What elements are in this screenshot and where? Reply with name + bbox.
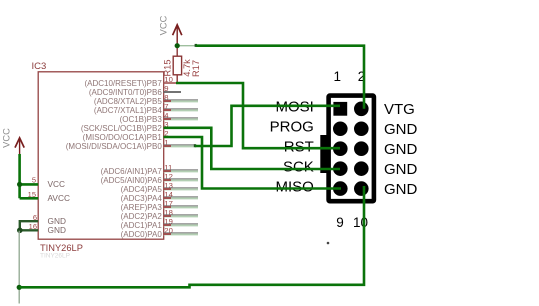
svg-text:GND: GND: [384, 121, 418, 138]
unconnected pin stub PB5: [164, 100, 199, 102]
header pin 7 (SCK): [333, 161, 348, 176]
svg-text:IC3: IC3: [32, 61, 47, 72]
IC3 left pin numbers: [28, 176, 37, 231]
header pin 6 (GND): [354, 141, 369, 156]
svg-text:GND: GND: [384, 161, 418, 178]
wire MOSI net: PB0 to header pin 1: [195, 106, 340, 146]
svg-text:(ADC9/INT0/T0)PB6: (ADC9/INT0/T0)PB6: [89, 88, 162, 97]
svg-text:AVCC: AVCC: [48, 193, 70, 203]
svg-text:(ADC2)PA2: (ADC2)PA2: [121, 212, 163, 221]
svg-text:VTG: VTG: [384, 101, 415, 118]
wire MISO net: PB1 to header pin 9: [164, 137, 342, 189]
wire VCC net tick: [195, 44, 197, 47]
svg-text:(SCK/SCL/OC1B\)PB2: (SCK/SCL/OC1B\)PB2: [81, 124, 162, 133]
svg-text:(ADC5/AIN0)PA6: (ADC5/AIN0)PA6: [101, 176, 163, 185]
wire GND bottom rail: [19, 186, 364, 287]
unconnected pin stub PA0: [164, 233, 199, 235]
svg-text:VCC: VCC: [159, 15, 169, 35]
IC3 right pin numbers: [164, 75, 173, 235]
VCC power symbol above resistor: [173, 25, 182, 46]
IC3 right-side pin name labels: [66, 79, 163, 239]
svg-text:R15: R15: [163, 59, 173, 76]
IC3 body: [38, 72, 164, 239]
unconnected pin stub PA6: [164, 179, 199, 181]
svg-text:(ADC0)PA0: (ADC0)PA0: [121, 230, 163, 239]
header pin 5 (RST): [333, 141, 348, 156]
wire VCC net: pale lead from vcc arrow junction: [177, 45, 196, 47]
junction at pin 16: [17, 228, 23, 234]
unconnected pin stub PA4: [164, 197, 199, 199]
svg-text:(MISO/DO/OC1A)PB1: (MISO/DO/OC1A)PB1: [83, 133, 163, 142]
svg-text:(ADC7/XTAL1)PB4: (ADC7/XTAL1)PB4: [94, 106, 162, 115]
pin stub PB0 pale part: [164, 145, 196, 147]
stray dot artifact: [327, 242, 330, 245]
svg-text:GND: GND: [384, 141, 418, 158]
svg-text:VCC: VCC: [1, 128, 11, 148]
header pin 10 (GND): [354, 181, 369, 196]
header pin 3 (PROG): [333, 121, 348, 136]
svg-text:VCC: VCC: [48, 179, 66, 189]
junction at pin 5: [17, 182, 22, 187]
unconnected pin stub PB4: [164, 109, 199, 111]
svg-text:(ADC3)PA4: (ADC3)PA4: [121, 194, 163, 203]
svg-text:R17: R17: [191, 60, 201, 77]
header pin 8 (GND): [354, 161, 369, 176]
ISP header connector body: [329, 96, 374, 202]
pin stub PB7 (red, to resistor): [164, 82, 177, 84]
header column numbers 9 10: [336, 215, 368, 230]
svg-text:(AREF)PA3: (AREF)PA3: [121, 203, 163, 212]
resistor R15 4.7k: [173, 46, 181, 84]
IC3 left-side pin name labels: [48, 179, 70, 235]
header column numbers 1 2: [334, 69, 366, 84]
junction at VCC/resistor: [175, 43, 180, 48]
svg-text:(ADC6/AIN1)PA7: (ADC6/AIN1)PA7: [101, 167, 163, 176]
unconnected pin stub PA3: [164, 206, 199, 208]
svg-text:GND: GND: [48, 225, 66, 235]
VCC power symbol left: [15, 138, 24, 155]
svg-text:MISO: MISO: [275, 179, 313, 196]
header key notch: [320, 135, 328, 173]
unconnected pin stub PA2: [164, 215, 199, 217]
svg-text:10: 10: [353, 215, 368, 230]
wire VCC left: arrow to VCC/AVCC pins: [20, 154, 39, 198]
svg-text:(ADC8/XTAL2)PB5: (ADC8/XTAL2)PB5: [94, 97, 162, 106]
svg-text:(ADC4)PA5: (ADC4)PA5: [121, 185, 163, 194]
svg-text:PROG: PROG: [270, 119, 314, 136]
svg-text:1: 1: [334, 69, 342, 84]
wire VCC net to header pin 2: [196, 46, 364, 109]
svg-text:(MOSI/DI/SDA/OC1A\)PB0: (MOSI/DI/SDA/OC1A\)PB0: [66, 142, 163, 151]
header pin 4 (GND): [354, 121, 369, 136]
unconnected pin stub PA5: [164, 188, 199, 190]
header pin 1 (square, MOSI): [333, 102, 347, 116]
unconnected pin stub PA7: [164, 170, 199, 172]
header left signal labels: [270, 99, 314, 196]
svg-text:(ADC10/RESET\)PB7: (ADC10/RESET\)PB7: [84, 79, 162, 88]
wire SCK net: PB2 to header pin 7: [164, 128, 341, 169]
svg-text:(ADC1)PA1: (ADC1)PA1: [121, 221, 163, 230]
unconnected pin stub PB3: [164, 118, 199, 120]
svg-text:(OC1B)PB3: (OC1B)PB3: [120, 115, 163, 124]
header pin 2 (VTG): [354, 102, 369, 117]
left pin stubs 5 15 6 16: [26, 184, 38, 230]
svg-text:SCK: SCK: [283, 159, 314, 176]
header pin 9 (MISO): [333, 181, 348, 196]
unconnected pin stub PA1: [164, 224, 199, 226]
svg-text:TINY26LP: TINY26LP: [40, 253, 70, 260]
wire GND thin drop to bottom rail: [18, 231, 20, 304]
svg-text:TINY26LP: TINY26LP: [40, 243, 83, 253]
wire GND left: pins 6,16: [20, 221, 38, 230]
pin stub PB6 (dark): [164, 91, 182, 93]
svg-text:GND: GND: [384, 181, 418, 198]
wire MOSI net tick: [194, 144, 196, 147]
header right signal labels: [384, 101, 418, 198]
svg-text:9: 9: [336, 215, 344, 230]
wire RESET net: PB7 to RST pin 5: [176, 83, 340, 148]
junction at bottom rail: [17, 285, 22, 290]
